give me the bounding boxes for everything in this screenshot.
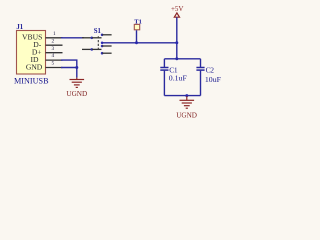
power +5V triangle xyxy=(174,13,179,17)
svg-text:UGND: UGND xyxy=(66,90,87,98)
testpoint T1 pad xyxy=(134,24,139,29)
junction bottom rail to ground xyxy=(185,94,188,97)
switch S1 gang dashed link xyxy=(97,36,99,51)
junction pin4/pin5 GND net xyxy=(75,66,78,69)
wire GND net down to ground xyxy=(76,68,78,78)
switch S1 pole A pin xyxy=(82,37,91,39)
switch S1 throw B1 stub xyxy=(102,45,112,47)
svg-text:2: 2 xyxy=(52,38,55,44)
capacitor C1 top plate xyxy=(160,67,168,69)
switch S1 throw B2 stub xyxy=(102,52,112,54)
wire switch A2 to +5V node xyxy=(102,42,177,44)
ground UGND right bar 3 xyxy=(184,105,190,107)
ground UGND right bar 2 xyxy=(182,102,192,104)
wire C1 bottom stem xyxy=(163,71,165,96)
wire T1 stem xyxy=(136,30,138,43)
ground UGND left bar 2 xyxy=(72,81,82,83)
switch S1 pole A contact dot xyxy=(91,37,94,40)
junction +5V on rail xyxy=(175,41,178,44)
svg-text:4: 4 xyxy=(52,53,55,59)
switch S1 throw B2 dot xyxy=(101,52,104,55)
svg-text:10uF: 10uF xyxy=(205,75,222,84)
svg-text:C2: C2 xyxy=(206,65,215,74)
ground UGND right bar 1 xyxy=(180,99,195,101)
switch S1 throw A1 dot xyxy=(101,34,104,37)
switch S1 throw A1 stub xyxy=(102,34,112,36)
switch S1 pole B pin xyxy=(82,48,91,50)
svg-text:MINIUSB: MINIUSB xyxy=(14,76,49,85)
pin 1 line xyxy=(46,37,63,39)
ground UGND right bar 4 xyxy=(186,107,188,109)
wire GND pin5 horizontal xyxy=(61,67,78,69)
pin 2 line xyxy=(46,44,63,46)
capacitor C2 top plate xyxy=(196,67,204,69)
svg-text:+5V: +5V xyxy=(171,5,184,13)
switch S1 throw B1 dot xyxy=(101,45,104,48)
wire capacitor bottom rail xyxy=(164,95,200,97)
wire C2 top stem xyxy=(200,59,202,67)
switch S1 pole B lever xyxy=(92,48,102,50)
svg-text:1: 1 xyxy=(53,31,56,37)
svg-text:GND: GND xyxy=(26,62,43,71)
wire ID pin4 vertical down to GND net xyxy=(76,60,78,67)
ground UGND left bar 1 xyxy=(70,79,85,81)
wire ID pin4 horizontal xyxy=(61,59,78,61)
pin 5 line xyxy=(46,67,63,69)
ground UGND left stem xyxy=(76,78,78,80)
wire C1 top stem xyxy=(163,59,165,67)
ground UGND left bar 3 xyxy=(74,84,80,86)
svg-text:3: 3 xyxy=(52,46,55,52)
svg-text:S1: S1 xyxy=(94,28,102,35)
wire capacitor top rail xyxy=(164,58,200,60)
svg-text:UGND: UGND xyxy=(176,112,197,120)
svg-text:0.1uF: 0.1uF xyxy=(169,74,188,83)
switch S1 pole A lever xyxy=(92,37,102,39)
sheet background xyxy=(0,0,240,122)
svg-text:5: 5 xyxy=(52,61,55,67)
wire C2 bottom stem xyxy=(200,71,202,96)
wire +5V stem down xyxy=(176,17,178,58)
pin 4 line xyxy=(46,59,63,61)
switch S1 pole B contact dot xyxy=(91,48,94,51)
capacitor C1 bottom plate xyxy=(160,69,168,71)
switch S1 throw A2 dot xyxy=(101,42,104,45)
ground UGND left bar 4 xyxy=(76,86,78,88)
junction T1 on rail xyxy=(135,41,138,44)
ground UGND right stem xyxy=(186,96,188,100)
wire VBUS pin1 to switch pole A xyxy=(61,37,84,39)
pin 3 line xyxy=(46,52,63,54)
junction +5V on cap rail xyxy=(175,57,178,60)
capacitor C2 bottom plate xyxy=(196,69,204,71)
connector J1 body xyxy=(17,31,46,75)
